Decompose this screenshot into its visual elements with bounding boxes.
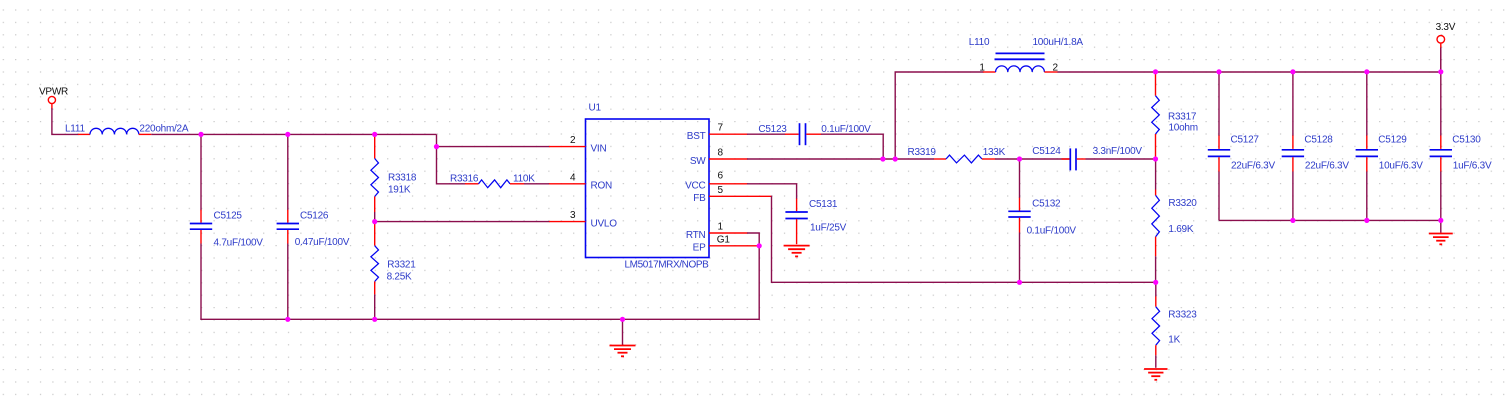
svg-text:1: 1 — [979, 63, 985, 74]
svg-text:191K: 191K — [388, 184, 411, 195]
pin name RTN — [686, 230, 706, 241]
value 100uH/1.8A — [1033, 37, 1084, 48]
wire C5123 to SW node — [821, 134, 883, 159]
svg-text:C5124: C5124 — [1032, 146, 1061, 157]
node FB rail / C5132 — [1017, 280, 1022, 285]
svg-text:8.25K: 8.25K — [387, 272, 412, 283]
svg-text:22uF/6.3V: 22uF/6.3V — [1305, 161, 1349, 172]
svg-text:C5132: C5132 — [1032, 199, 1061, 210]
svg-text:VPWR: VPWR — [39, 87, 68, 98]
resistor R3318 — [371, 135, 379, 222]
label R3321 — [387, 260, 416, 271]
svg-text:R3317: R3317 — [1168, 112, 1197, 123]
value 220ohm/2A — [139, 123, 188, 134]
svg-text:4: 4 — [570, 172, 576, 183]
pin name BST — [687, 131, 706, 142]
svg-text:0.47uF/100V: 0.47uF/100V — [295, 237, 350, 248]
resistor R3316 — [465, 180, 550, 188]
capacitor C5123 — [785, 123, 821, 145]
svg-text:C5129: C5129 — [1378, 135, 1407, 146]
inductor L110 — [983, 53, 1058, 72]
svg-text:R3318: R3318 — [388, 173, 417, 184]
value C5128 — [1305, 161, 1349, 172]
resistor R3320 — [1152, 159, 1160, 282]
wire output rail — [1058, 71, 1441, 73]
capacitor C5126 — [277, 134, 299, 319]
svg-text:RON: RON — [591, 181, 613, 192]
capacitor C5128 — [1282, 72, 1304, 220]
label R3317 — [1168, 112, 1197, 123]
label R3323 — [1168, 310, 1197, 321]
pin name UVLO — [591, 218, 618, 229]
label C5126 — [300, 211, 329, 222]
svg-text:5: 5 — [718, 185, 724, 196]
node input rail / R3318 — [372, 132, 377, 137]
node ground rail / ground stub — [620, 317, 625, 322]
terminal VPWR — [48, 96, 55, 108]
svg-text:RTN: RTN — [686, 230, 706, 241]
svg-text:1.69K: 1.69K — [1168, 224, 1193, 235]
pin name RON — [591, 181, 613, 192]
node EP/RTN — [757, 243, 762, 248]
resistor R3321 — [371, 222, 379, 320]
value 1uF/25V — [810, 222, 847, 233]
svg-text:EP: EP — [693, 243, 706, 254]
wire UVLO — [375, 221, 550, 223]
pin name VIN — [591, 143, 607, 154]
wire rail to VIN corner — [437, 134, 550, 146]
label C5132 — [1032, 199, 1061, 210]
value 0.1uF/100V C5132 — [1027, 226, 1077, 237]
pin number 7 — [718, 123, 724, 134]
value 110K — [513, 174, 535, 185]
svg-text:3.3V: 3.3V — [1436, 22, 1456, 33]
wire input rail — [151, 133, 436, 135]
pin number G1 — [717, 234, 731, 245]
label C5131 — [809, 199, 838, 210]
node ground rail / R3321 — [372, 317, 377, 322]
pin 7 BST stub — [709, 133, 748, 135]
value 1K — [1168, 334, 1180, 345]
label R3320 — [1168, 198, 1197, 209]
svg-text:L110: L110 — [969, 37, 990, 48]
svg-text:22uF/6.3V: 22uF/6.3V — [1231, 161, 1275, 172]
wire RTN jog — [747, 233, 759, 246]
node input rail / C5126 — [285, 132, 290, 137]
capacitor C5132 — [1008, 159, 1030, 282]
label C5123 — [758, 124, 787, 135]
svg-text:U1: U1 — [589, 103, 602, 114]
svg-text:C5126: C5126 — [300, 211, 329, 222]
svg-text:R3319: R3319 — [908, 147, 937, 158]
capacitor C5127 — [1208, 72, 1230, 220]
node ground rail / C5126 — [285, 317, 290, 322]
svg-text:10ohm: 10ohm — [1169, 122, 1198, 133]
label C5129 — [1378, 135, 1407, 146]
pin name FB — [693, 193, 706, 204]
pin G1 EP stub — [709, 245, 759, 247]
svg-text:FB: FB — [693, 193, 706, 204]
wire SW node up to L110 — [895, 72, 983, 159]
svg-text:1: 1 — [718, 222, 724, 233]
svg-text:6: 6 — [718, 170, 724, 181]
ground at output — [1429, 234, 1453, 245]
pin 6 VCC stub — [709, 183, 748, 185]
pin number 2 L110 — [1053, 63, 1059, 74]
value LM5017MRX/NOPB — [625, 259, 710, 270]
wire SW — [747, 158, 895, 160]
label C5124 — [1032, 146, 1061, 157]
pin number 8 — [718, 148, 724, 159]
svg-text:VIN: VIN — [591, 143, 607, 154]
label C5130 — [1452, 135, 1481, 146]
wire VIN node down to R3316 — [437, 147, 466, 184]
pin 3 UVLO stub — [549, 221, 586, 223]
svg-text:UVLO: UVLO — [591, 218, 618, 229]
node C5124 / R3317 / R3320 — [1153, 156, 1158, 161]
svg-text:0.1uF/100V: 0.1uF/100V — [1027, 226, 1077, 237]
svg-text:LM5017MRX/NOPB: LM5017MRX/NOPB — [625, 259, 710, 270]
label L111 — [65, 123, 85, 134]
node output rail / C5128 — [1290, 69, 1295, 74]
wire to output ground — [1440, 220, 1442, 232]
capacitor C5130 — [1430, 48, 1452, 221]
value C5127 — [1231, 161, 1275, 172]
node bottom rail / C5128 — [1290, 218, 1295, 223]
value 1.69K — [1168, 224, 1193, 235]
node R3318/R3321/UVLO — [372, 219, 377, 224]
wire VPWR to input rail — [52, 108, 79, 134]
svg-text:VCC: VCC — [685, 181, 705, 192]
svg-text:220ohm/2A: 220ohm/2A — [139, 123, 188, 134]
inductor L111 — [78, 128, 151, 134]
svg-text:C5123: C5123 — [758, 124, 787, 135]
node BST-cap / SW — [880, 156, 885, 161]
value 0.1uF/100V C5123 — [821, 124, 871, 135]
pin name SW — [690, 156, 706, 167]
pin 8 SW stub — [709, 158, 748, 160]
label C5125 — [214, 211, 243, 222]
node output rail / R3317 — [1153, 69, 1158, 74]
node R3319 / C5124 / C5132 — [1017, 156, 1022, 161]
net label VPWR — [39, 87, 68, 98]
label R3316 — [450, 174, 479, 185]
capacitor C5125 — [190, 134, 212, 319]
value C5129 — [1379, 161, 1423, 172]
terminal 3.3V — [1437, 36, 1445, 49]
pin number 1 L110 — [979, 63, 985, 74]
wire BST to C5123 — [747, 133, 786, 135]
wire EP down to ground rail — [200, 246, 759, 319]
capacitor C5131 — [785, 199, 807, 245]
resistor R3317 — [1152, 73, 1160, 158]
pin 5 FB stub — [709, 195, 772, 197]
svg-text:L111: L111 — [65, 123, 85, 134]
svg-text:110K: 110K — [513, 174, 535, 185]
svg-text:1K: 1K — [1168, 334, 1180, 345]
svg-text:R3321: R3321 — [387, 260, 416, 271]
pin 1 RTN stub — [709, 232, 748, 234]
pin 2 VIN stub — [549, 146, 586, 148]
wire ground stub — [622, 319, 624, 345]
svg-text:BST: BST — [687, 131, 706, 142]
svg-text:C5130: C5130 — [1452, 135, 1481, 146]
pin number 6 — [718, 170, 724, 181]
svg-text:C5125: C5125 — [214, 211, 243, 222]
svg-text:1uF/6.3V: 1uF/6.3V — [1453, 161, 1492, 172]
label R3319 — [908, 147, 937, 158]
op-amp U1 body LM5017MRX/NOPB — [586, 119, 710, 258]
value 4.7uF/100V — [214, 237, 264, 248]
node FB rail / R3320 / R3323 — [1153, 280, 1158, 285]
node bottom rail / C5129 — [1364, 218, 1369, 223]
svg-text:133K: 133K — [983, 147, 1006, 158]
svg-text:C5131: C5131 — [809, 199, 838, 210]
ground at C5131 — [784, 246, 810, 257]
pin number 3 — [570, 210, 576, 221]
value 133K — [983, 147, 1006, 158]
wire 3.3V to output rail — [1440, 48, 1442, 73]
svg-text:100uH/1.8A: 100uH/1.8A — [1033, 37, 1084, 48]
svg-text:2: 2 — [570, 135, 576, 146]
wire VCC to C5131 — [747, 184, 797, 199]
pin number 5 — [718, 185, 724, 196]
pin 4 RON stub — [549, 183, 586, 185]
svg-text:C5127: C5127 — [1231, 135, 1260, 146]
svg-text:3.3nF/100V: 3.3nF/100V — [1093, 146, 1143, 157]
svg-text:1uF/25V: 1uF/25V — [810, 222, 847, 233]
label C5127 — [1231, 135, 1260, 146]
svg-text:3: 3 — [570, 210, 576, 221]
label U1 — [589, 103, 602, 114]
value 191K — [388, 184, 411, 195]
pin number 4 — [570, 172, 576, 183]
value 8.25K — [387, 272, 412, 283]
node input rail / C5125 — [198, 132, 203, 137]
node bottom rail / C5130 / ground — [1438, 218, 1443, 223]
net label 3.3V — [1436, 22, 1456, 33]
wire FB down and across — [771, 196, 1156, 282]
svg-text:4.7uF/100V: 4.7uF/100V — [214, 237, 264, 248]
svg-text:R3323: R3323 — [1168, 310, 1197, 321]
resistor R3323 — [1152, 282, 1160, 368]
value 3.3nF/100V — [1093, 146, 1143, 157]
resistor R3319 — [895, 155, 1070, 163]
label C5128 — [1304, 135, 1333, 146]
pin number 1 — [718, 222, 724, 233]
svg-text:G1: G1 — [717, 234, 731, 245]
label R3318 — [388, 173, 417, 184]
pin name EP — [693, 243, 706, 254]
node output rail / C5127 — [1216, 69, 1221, 74]
ground at R3323 — [1144, 369, 1167, 380]
capacitor C5129 — [1356, 72, 1378, 220]
value 0.47uF/100V — [295, 237, 350, 248]
node output rail / C5129 — [1364, 69, 1369, 74]
svg-text:7: 7 — [718, 123, 724, 134]
node VIN branch — [434, 144, 439, 149]
node SW / L110 / R3319 — [893, 156, 898, 161]
svg-text:C5128: C5128 — [1304, 135, 1333, 146]
label L110 — [969, 37, 990, 48]
svg-text:10uF/6.3V: 10uF/6.3V — [1379, 161, 1423, 172]
svg-text:SW: SW — [690, 156, 706, 167]
ground at U1 — [610, 346, 636, 357]
value C5130 — [1453, 161, 1492, 172]
svg-text:R3316: R3316 — [450, 174, 479, 185]
node output rail / 3.3V — [1438, 69, 1443, 74]
wire output ground rail — [1219, 219, 1441, 221]
svg-text:8: 8 — [718, 148, 724, 159]
capacitor C5124 — [1062, 148, 1156, 170]
pin number 2 — [570, 135, 576, 146]
pin name VCC — [685, 181, 705, 192]
svg-text:R3320: R3320 — [1168, 198, 1197, 209]
value 10ohm — [1169, 122, 1198, 133]
